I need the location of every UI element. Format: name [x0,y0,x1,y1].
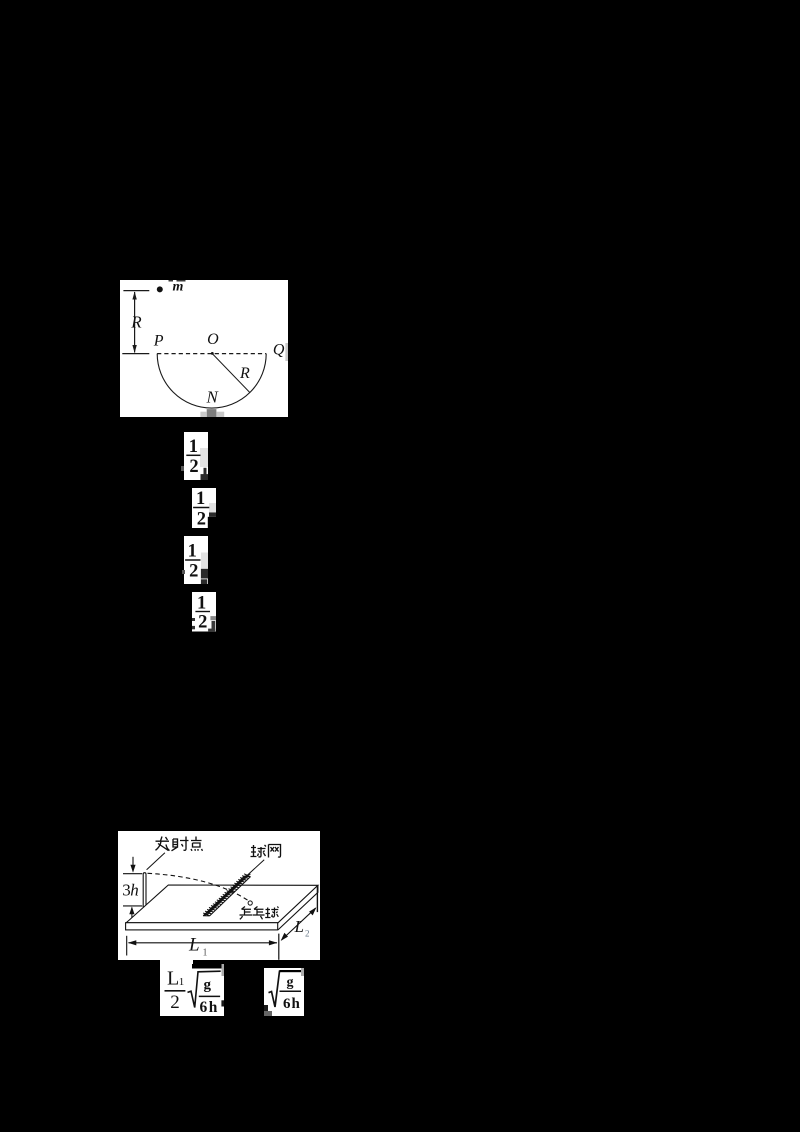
svg-text:R: R [130,312,142,331]
svg-text:2: 2 [189,457,198,477]
semicircle bowl [157,353,266,407]
svg-text:L: L [188,935,200,956]
svg-text:R: R [239,365,250,382]
svg-text:2: 2 [197,509,206,528]
svg-text:2: 2 [305,929,310,939]
inner fraction bar [198,995,219,997]
FORMULA 2 : sqrt(g/6h) [264,968,304,1016]
FIGURE 2 : ping-pong table diagram [118,831,320,960]
FIGURE 1 : semicircular bowl diagram [120,280,288,417]
fraction 1 left speck [181,466,184,471]
gray stand below N [206,409,216,417]
svg-text:1: 1 [203,948,208,959]
球 [251,845,267,857]
射 [172,837,189,851]
3h up arrow [131,908,133,920]
dashed trajectory [148,873,250,901]
thick overbar [279,970,300,972]
ball m [156,286,162,292]
svg-text:6h: 6h [283,996,301,1012]
white tab connecting figure 2 to formula 1 [160,960,193,965]
radical sign [187,971,220,1007]
fraction bar [164,989,185,991]
3h top tick [123,873,142,875]
R dimension top tick [123,289,149,291]
fraction 3 left speck [182,570,185,574]
svg-text:Q: Q [272,341,284,358]
center dot O [210,352,213,355]
svg-text:g: g [286,975,293,990]
leader line to net top [245,860,265,878]
svg-text:m: m [172,280,183,294]
L1 dimension arrow [129,942,278,944]
dark mark after h [221,1000,224,1006]
table right face [278,885,318,930]
svg-text:N: N [205,387,219,406]
gray square below-left of formula 2 [264,1011,272,1016]
net (crosshatched band) [203,874,250,916]
3h down arrow [132,857,134,872]
ping-pong ball [248,901,252,905]
table front face [126,923,278,930]
svg-text:O: O [207,331,219,348]
L2 extension line (back right) [317,887,319,913]
发 [156,837,170,851]
inner fraction bar [279,990,300,992]
fraction 4 right perpendicular mark [207,621,217,632]
L1 right extension line [278,934,280,960]
svg-text:g: g [203,976,211,992]
乒乓球 label [240,907,279,920]
FORMULA 1 : (L1/2)sqrt(g/6h) [160,964,225,1016]
乓 [253,907,265,920]
svg-text:h: h [131,881,140,900]
svg-text:2: 2 [170,992,180,1013]
svg-text:1: 1 [188,541,197,561]
FRACTION 2 [192,488,216,528]
点 [191,837,203,851]
label 发射点 (launch point) [156,837,203,851]
dark smudge top edge [168,280,173,282]
FRACTION 3 [184,536,208,585]
svg-text:6h: 6h [199,999,218,1016]
R dimension vertical arrow [133,292,135,353]
svg-text:L: L [167,967,179,989]
L2 dimension arrow [282,908,316,940]
FRACTION 1 [184,432,208,480]
svg-text:P: P [152,332,163,349]
svg-text:1: 1 [197,593,206,613]
dark glyph left of formula 2 [264,1005,269,1012]
dashed diameter PQ [157,352,266,354]
球 [265,907,278,918]
radical sign [268,971,300,1007]
svg-text:1: 1 [189,437,198,457]
gray bar right of Q [285,343,288,361]
网 [269,845,281,858]
乒 [240,907,253,920]
label 球网 (net) [251,845,281,858]
svg-text:L: L [294,917,304,936]
3h bottom tick [123,905,142,907]
svg-text:1: 1 [178,976,184,988]
leader line to launcher [147,853,165,870]
table top [127,885,319,923]
radius line to lower right [212,353,250,392]
FRACTION 4 [192,592,216,632]
svg-text:2: 2 [189,561,198,581]
svg-text:1: 1 [196,489,205,509]
svg-text:2: 2 [198,612,207,631]
L1 left extension line [126,936,128,956]
black band top right (hidden text artifact) [192,963,224,969]
launcher pole [143,873,146,907]
R dimension bottom tick [122,352,149,354]
